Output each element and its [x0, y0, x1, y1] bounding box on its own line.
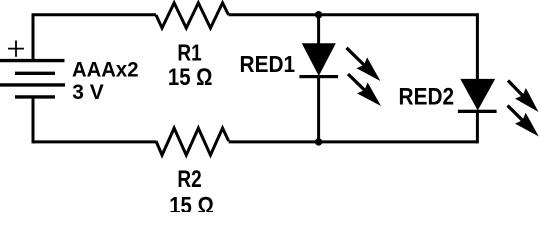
battery B1 short plate bottom (-): [15, 95, 55, 98]
wire right rail lower: [476, 111, 479, 143]
LED RED1 cathode bar: [299, 75, 338, 78]
wire right rail upper: [476, 13, 479, 80]
battery B1 long plate 3: [0, 83, 65, 86]
svg-text:RED2: RED2: [399, 84, 455, 111]
LED RED1 light arrow 1 shaft: [347, 48, 367, 67]
wire top rail left segment: [33, 13, 156, 16]
wire bottom rail right segment: [229, 140, 478, 143]
junction dot bottom node: [315, 138, 322, 145]
svg-text:3 V: 3 V: [72, 80, 104, 104]
wire left rail lower: [32, 97, 35, 143]
LED RED1 light arrow 2 shaft: [348, 74, 367, 92]
LED RED2 light arrow 1 shaft: [508, 81, 525, 98]
svg-text:RED1: RED1: [240, 51, 296, 77]
LED RED2 anode triangle: [460, 79, 495, 111]
svg-text:AAAx2: AAAx2: [72, 58, 139, 82]
battery B1 long plate top (+): [0, 59, 65, 62]
battery plus sign: [8, 41, 24, 57]
LED RED2 light arrow 2 shaft: [508, 106, 525, 123]
wire bottom rail left segment: [33, 140, 156, 143]
LED RED2 light arrow 2 head: [515, 113, 539, 137]
resistor R2 zigzag: [156, 128, 229, 155]
LED RED2 cathode bar: [458, 110, 497, 113]
LED RED1 light arrow 1 head: [357, 57, 381, 81]
svg-text:15 Ω: 15 Ω: [168, 64, 213, 91]
LED RED2 light arrow 1 head: [515, 88, 539, 112]
svg-text:15 Ω: 15 Ω: [169, 193, 214, 213]
wire LED1 branch upper: [317, 15, 320, 46]
wire left rail upper: [32, 13, 35, 60]
svg-text:R2: R2: [177, 166, 201, 193]
battery B1 short plate 2: [15, 72, 55, 75]
wire LED1 branch lower: [317, 76, 320, 142]
junction dot top node: [315, 11, 322, 18]
LED RED1 anode triangle: [302, 43, 336, 76]
LED RED1 light arrow 2 head: [357, 82, 381, 106]
resistor R1 zigzag: [156, 3, 229, 28]
svg-text:R1: R1: [177, 40, 201, 66]
wire top rail right segment: [229, 13, 478, 16]
